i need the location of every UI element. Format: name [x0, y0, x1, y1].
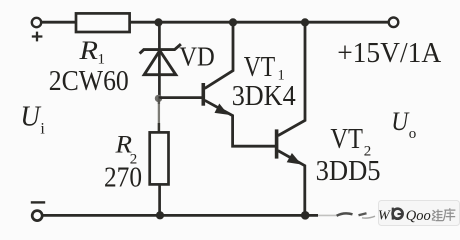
zener diode VD — [140, 44, 181, 75]
wire top rail — [42, 21, 389, 24]
svg-text:U: U — [391, 107, 410, 136]
node D junction (VT2 collector / rail) — [301, 18, 309, 26]
svg-text:3DD5: 3DD5 — [316, 155, 381, 187]
node F junction (VT2 emitter / bottom rail) — [301, 211, 310, 220]
resistor R2 — [150, 132, 169, 184]
node E junction (R2 / bottom rail) — [156, 211, 164, 219]
svg-text:2CW60: 2CW60 — [49, 66, 129, 97]
terminal output — [389, 18, 399, 28]
wire bottom rail — [42, 214, 318, 217]
VT1 collector — [205, 22, 233, 88]
wire zener vertical — [158, 22, 161, 99]
svg-text:o: o — [409, 126, 417, 142]
svg-text:+15V/1A: +15V/1A — [337, 37, 441, 69]
wire bottom rail faded dashes — [318, 214, 336, 216]
svg-text:3DK4: 3DK4 — [232, 81, 296, 112]
node C junction (VT1 collector / rail) — [229, 18, 237, 26]
VT1 emitter arrow — [215, 104, 229, 115]
watermark logo blob — [393, 208, 403, 220]
wire to VT1 base — [159, 96, 203, 99]
minus sign — [31, 201, 45, 203]
svg-text:VT: VT — [330, 124, 363, 155]
svg-text:W: W — [378, 209, 391, 224]
terminal input + — [32, 18, 41, 27]
terminal minus — [32, 211, 42, 221]
VT1 emitter — [205, 100, 277, 146]
watermark hanzi ku — [443, 208, 455, 221]
transistor Q1 (VT1) base bar — [202, 83, 206, 106]
resistor R1 — [76, 13, 130, 32]
node A junction (R1 / VD / rail) — [154, 18, 162, 26]
VT2 collector — [278, 22, 305, 136]
svg-text:R: R — [78, 36, 98, 65]
VT2 emitter — [278, 151, 305, 216]
svg-text:Qoo: Qoo — [406, 208, 431, 224]
svg-text:VD: VD — [179, 41, 215, 71]
svg-text:i: i — [40, 121, 45, 138]
VT2 emitter arrow — [287, 153, 302, 165]
plus sign — [32, 32, 43, 42]
wire node B to R2 — [158, 99, 160, 105]
node B junction (VD / R2 / VT1 base) — [155, 95, 162, 102]
svg-text:270: 270 — [104, 162, 142, 194]
watermark box — [379, 201, 460, 226]
watermark hanzi wei — [432, 209, 443, 220]
svg-text:U: U — [20, 102, 41, 133]
wire R2 to bottom rail — [158, 184, 161, 215]
transistor Q2 (VT2) base bar — [275, 129, 279, 158]
svg-text:VT: VT — [244, 52, 276, 83]
